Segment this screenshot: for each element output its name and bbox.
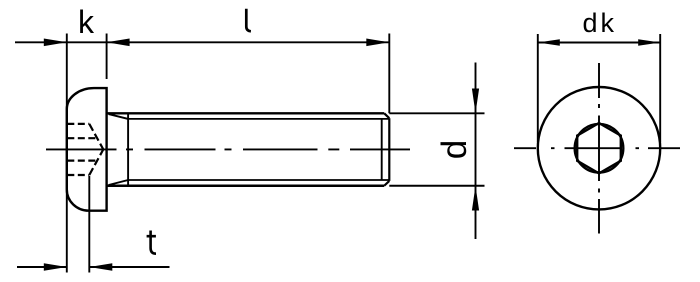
hex socket hidden line, upper inner <box>67 137 97 139</box>
end view: horizontal centerline <box>514 147 680 149</box>
thread start vertical line <box>127 113 129 185</box>
dimension dk: extension line right <box>659 34 661 142</box>
hex socket hidden line, upper outer <box>67 123 89 125</box>
svg-text:dk: dk <box>583 8 618 38</box>
head outer circle (end view) <box>538 87 660 209</box>
dimension k: extension line right <box>106 34 108 80</box>
end chamfer diagonal bottom <box>384 181 389 186</box>
thread runout diagonal top <box>109 114 129 119</box>
dimension l: extension line right <box>388 34 390 114</box>
svg-text:k: k <box>78 4 95 40</box>
shank outer line bottom <box>107 185 385 187</box>
label t <box>147 231 156 254</box>
dimension line k / l <box>15 41 389 43</box>
dimension t: extension line right <box>88 176 90 273</box>
end view: vertical centerline <box>598 63 600 234</box>
shank outer line top <box>107 112 385 114</box>
arrow l left (pointing left) <box>107 39 130 47</box>
end chamfer diagonal top <box>384 113 389 118</box>
socket cone bottom, lower edge <box>89 149 103 175</box>
arrow d top (pointing down) <box>472 89 479 114</box>
end face vertical <box>388 118 390 181</box>
thread root line top <box>128 118 389 120</box>
thread end vertical line <box>381 119 383 180</box>
screw head outline (button head, side view) <box>67 88 107 211</box>
socket cone bottom, upper edge <box>89 124 103 149</box>
label l <box>246 9 251 32</box>
arrow k left (pointing right) <box>44 39 67 47</box>
arrow d bottom (pointing up) <box>472 186 479 211</box>
dimension line t right leader <box>89 266 169 268</box>
arrow dk right (pointing right) <box>638 39 660 45</box>
dimension dk: extension line left <box>537 34 539 142</box>
dimension line dk <box>538 42 660 44</box>
dimension d: extension line bottom <box>389 185 484 187</box>
socket opening circle <box>575 124 624 173</box>
dimension k: extension line left (also t left extension, over head apex) <box>66 34 68 273</box>
thread root line bottom <box>128 179 389 181</box>
thread runout diagonal bottom <box>109 180 129 185</box>
hex socket hidden line, lower inner <box>67 160 97 162</box>
dimension line t left leader <box>17 266 67 268</box>
arrow t right (pointing left) <box>89 263 112 271</box>
hex socket <box>577 123 621 173</box>
hex socket hidden line, lower outer <box>67 174 89 176</box>
dimension d: extension line top <box>389 112 484 114</box>
svg-text:d: d <box>435 140 474 159</box>
arrow t left (pointing right) <box>44 263 67 271</box>
arrow l right (pointing right) <box>366 39 389 47</box>
arrow dk left (pointing left) <box>538 39 560 45</box>
dimension line d (vertical, outside arrows) <box>475 63 477 240</box>
centerline of screw axis (side view) <box>46 148 410 150</box>
